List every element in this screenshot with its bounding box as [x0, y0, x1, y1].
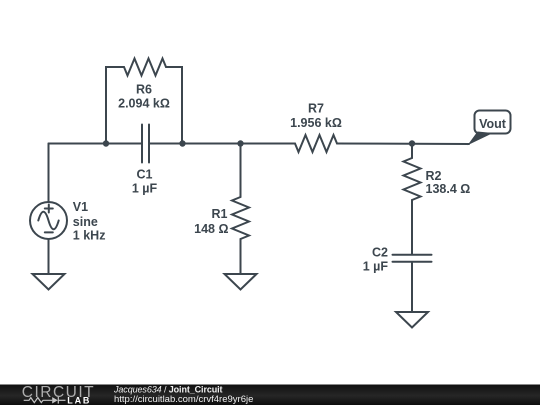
node junction dot at C1 left	[103, 140, 109, 146]
resistor R2 body	[404, 158, 421, 200]
svg-text:2.094 kΩ: 2.094 kΩ	[118, 97, 170, 111]
svg-text:148 Ω: 148 Ω	[194, 222, 228, 236]
V1 minus sign	[45, 231, 53, 233]
svg-text:1 µF: 1 µF	[132, 182, 158, 196]
svg-text:Vout: Vout	[479, 117, 507, 131]
node junction dot at R2	[409, 140, 415, 146]
footer logo diode triangle	[52, 397, 58, 403]
svg-text:V1: V1	[73, 200, 88, 214]
node junction dot at C1 right	[179, 140, 185, 146]
wire R6 left leg	[106, 67, 124, 144]
wire R1 top lead	[240, 144, 242, 198]
svg-text:R1: R1	[212, 207, 228, 221]
svg-text:138.4 Ω: 138.4 Ω	[426, 182, 471, 196]
svg-text:sine: sine	[73, 215, 98, 229]
footer bar	[0, 385, 540, 405]
wire R1 bottom lead	[240, 239, 242, 274]
V1 sine symbol	[38, 212, 58, 230]
svg-text:R7: R7	[308, 102, 324, 116]
svg-text:LAB: LAB	[67, 395, 91, 405]
capacitor C2 bottom plate	[393, 261, 432, 263]
svg-text:C1: C1	[137, 168, 153, 182]
wire main rail middle segment	[150, 143, 295, 145]
wire R2 top lead	[411, 144, 413, 159]
node junction dot at R1	[237, 140, 243, 146]
wire V1 bottom lead	[48, 239, 50, 274]
capacitor C1 right plate	[148, 125, 150, 163]
resistor R7 body	[295, 135, 337, 152]
flag Vout box	[475, 111, 511, 134]
voltage source V1 body	[30, 202, 67, 239]
wire V1 top lead	[48, 144, 50, 203]
wire R6 right leg	[166, 67, 182, 144]
wire main rail left segment	[49, 143, 142, 145]
svg-text:1.956 kΩ: 1.956 kΩ	[290, 116, 342, 130]
svg-text:C2: C2	[372, 246, 388, 260]
resistor R1 body	[232, 197, 249, 239]
svg-text:1 kHz: 1 kHz	[73, 229, 106, 243]
flag Vout tail	[468, 132, 494, 146]
svg-text:Jacques634 / Joint_Circuit: Jacques634 / Joint_Circuit	[113, 384, 223, 394]
wire C2 bottom lead	[411, 263, 413, 312]
ground for R1	[225, 274, 257, 290]
ground for V1	[33, 274, 65, 290]
wire R2 bottom lead	[411, 200, 413, 254]
V1 plus sign	[45, 205, 53, 213]
capacitor C2 top plate	[393, 254, 432, 256]
svg-text:R6: R6	[136, 82, 152, 96]
wire main rail right segment	[337, 143, 469, 146]
resistor R6 body	[124, 59, 166, 76]
ground for C2	[396, 312, 428, 328]
capacitor C1 left plate	[141, 125, 143, 163]
svg-text:http://circuitlab.com/crvf4re9: http://circuitlab.com/crvf4re9yr6je	[114, 394, 253, 405]
footer logo resistor-diode motif	[24, 397, 66, 404]
svg-text:1 µF: 1 µF	[363, 260, 389, 274]
